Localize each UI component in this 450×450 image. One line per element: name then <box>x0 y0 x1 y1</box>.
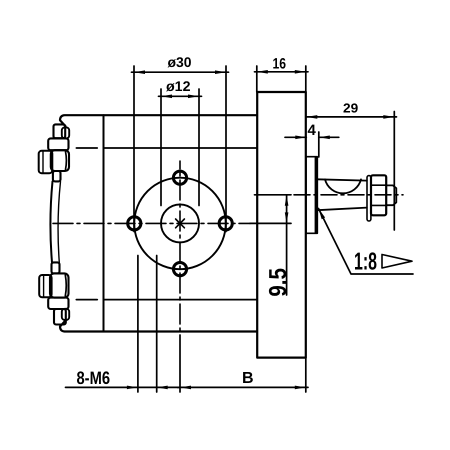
dimension 16 <box>255 70 309 74</box>
dimension 4 <box>285 136 339 140</box>
dimension 9.5 <box>285 195 289 295</box>
mounting plate 4mm <box>306 157 317 234</box>
svg-text:B: B <box>242 370 254 387</box>
taper leader line <box>319 209 414 275</box>
top port boss <box>51 150 69 171</box>
top port lower tab <box>53 171 61 181</box>
svg-text:ø12: ø12 <box>166 78 191 94</box>
extension line Ø12 left <box>160 89 162 206</box>
bottom port upper tab <box>52 262 60 273</box>
dimension B <box>178 386 309 390</box>
svg-text:1:8: 1:8 <box>354 249 377 276</box>
extension line shaft axis <box>255 194 292 196</box>
svg-text:29: 29 <box>343 101 358 116</box>
shaft axis centerline <box>294 194 403 196</box>
flange horizontal centerline <box>50 222 250 224</box>
cover bulge outer contour <box>50 181 52 262</box>
top port hex locknut <box>48 138 68 150</box>
bottom port hex locknut <box>48 298 68 309</box>
top port plug head <box>54 124 70 138</box>
svg-text:ø30: ø30 <box>168 54 192 70</box>
threaded shaft end <box>386 185 396 205</box>
pump body lower edge line <box>76 299 257 301</box>
extension line M6 hole right <box>156 256 158 393</box>
svg-text:9.5: 9.5 <box>265 268 292 297</box>
top port hex tip <box>39 151 53 173</box>
bolt hole bottom <box>173 263 186 276</box>
bolt hole right <box>219 217 232 230</box>
extension line flange axis right <box>250 222 291 224</box>
pump body upper edge line <box>76 147 257 149</box>
center mark X <box>176 219 185 228</box>
dimension 29 <box>306 115 396 119</box>
bolt hole top <box>173 171 186 184</box>
cover bulge inner contour <box>58 181 60 262</box>
bottom port plug head <box>54 309 69 325</box>
hex nut <box>371 175 386 215</box>
extension line M6 hole left <box>137 256 139 393</box>
dimension 8-M6 <box>66 386 181 390</box>
extension line Ø30 left <box>133 66 135 232</box>
extension line Ø30 right <box>225 66 227 232</box>
flange vertical centerline <box>179 161 181 335</box>
bolt hole left <box>128 217 141 230</box>
svg-text:4: 4 <box>308 122 317 139</box>
center bore Ø12 <box>161 204 199 242</box>
taper symbol triangle <box>382 255 412 269</box>
bottom port boss <box>50 273 69 297</box>
dimension Ø30 <box>132 70 229 74</box>
extension line 4 right <box>318 132 320 157</box>
washer <box>367 176 371 221</box>
svg-text:16: 16 <box>273 55 287 72</box>
dimension Ø12 <box>159 95 202 99</box>
bottom port hex tip <box>39 275 51 297</box>
bolt circle Ø30 <box>134 178 226 270</box>
pump flange plate outline <box>60 115 257 331</box>
extension line 29 right <box>393 112 395 231</box>
svg-text:8-M6: 8-M6 <box>77 368 111 388</box>
extension line 16 left <box>256 66 258 92</box>
tapered drive shaft <box>317 179 367 210</box>
extension line 16/B right <box>305 66 307 392</box>
extension line Ø12 right <box>198 89 200 206</box>
rear housing block <box>257 92 306 358</box>
woodruff key seat <box>325 179 361 193</box>
